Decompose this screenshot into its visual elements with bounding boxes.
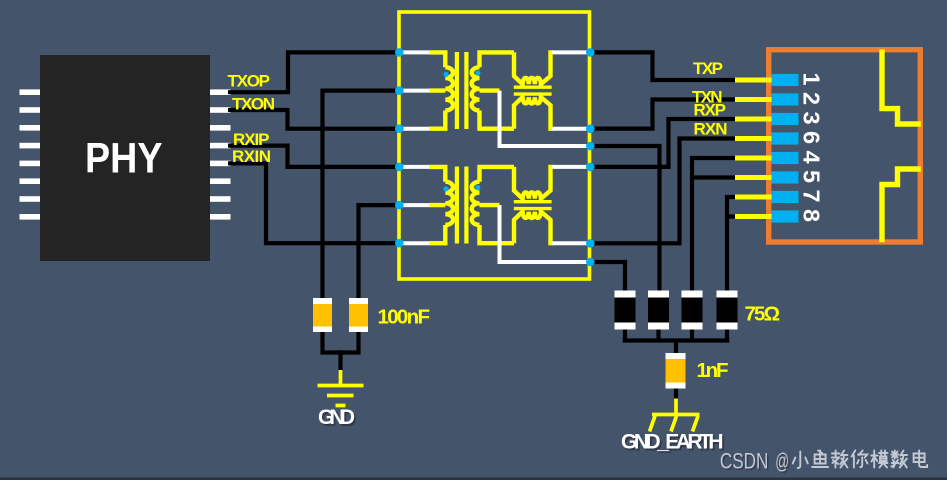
svg-text:TXP: TXP [693,59,723,78]
svg-text:75Ω: 75Ω [745,303,781,326]
svg-text:RXIN: RXIN [232,147,271,166]
svg-text:TXON: TXON [232,95,275,114]
svg-text:7: 7 [799,189,825,202]
svg-text:100nF: 100nF [378,306,431,329]
svg-text:RXP: RXP [694,101,727,120]
svg-text:2: 2 [799,92,825,105]
svg-text:GND: GND [318,406,355,429]
svg-text:GND_EARTH: GND_EARTH [621,431,724,454]
svg-text:RXN: RXN [694,120,728,139]
svg-text:CSDN: CSDN [720,449,769,474]
svg-text:TXOP: TXOP [228,71,271,90]
svg-text:5: 5 [799,170,825,183]
svg-text:PHY: PHY [85,136,163,183]
svg-text:8: 8 [799,209,825,222]
svg-text:6: 6 [799,131,825,144]
svg-text:3: 3 [799,111,825,124]
svg-text:RXIP: RXIP [233,130,270,149]
svg-text:@: @ [775,449,789,474]
svg-text:1nF: 1nF [697,359,729,382]
svg-text:4: 4 [799,150,825,163]
svg-text:1: 1 [799,72,825,85]
